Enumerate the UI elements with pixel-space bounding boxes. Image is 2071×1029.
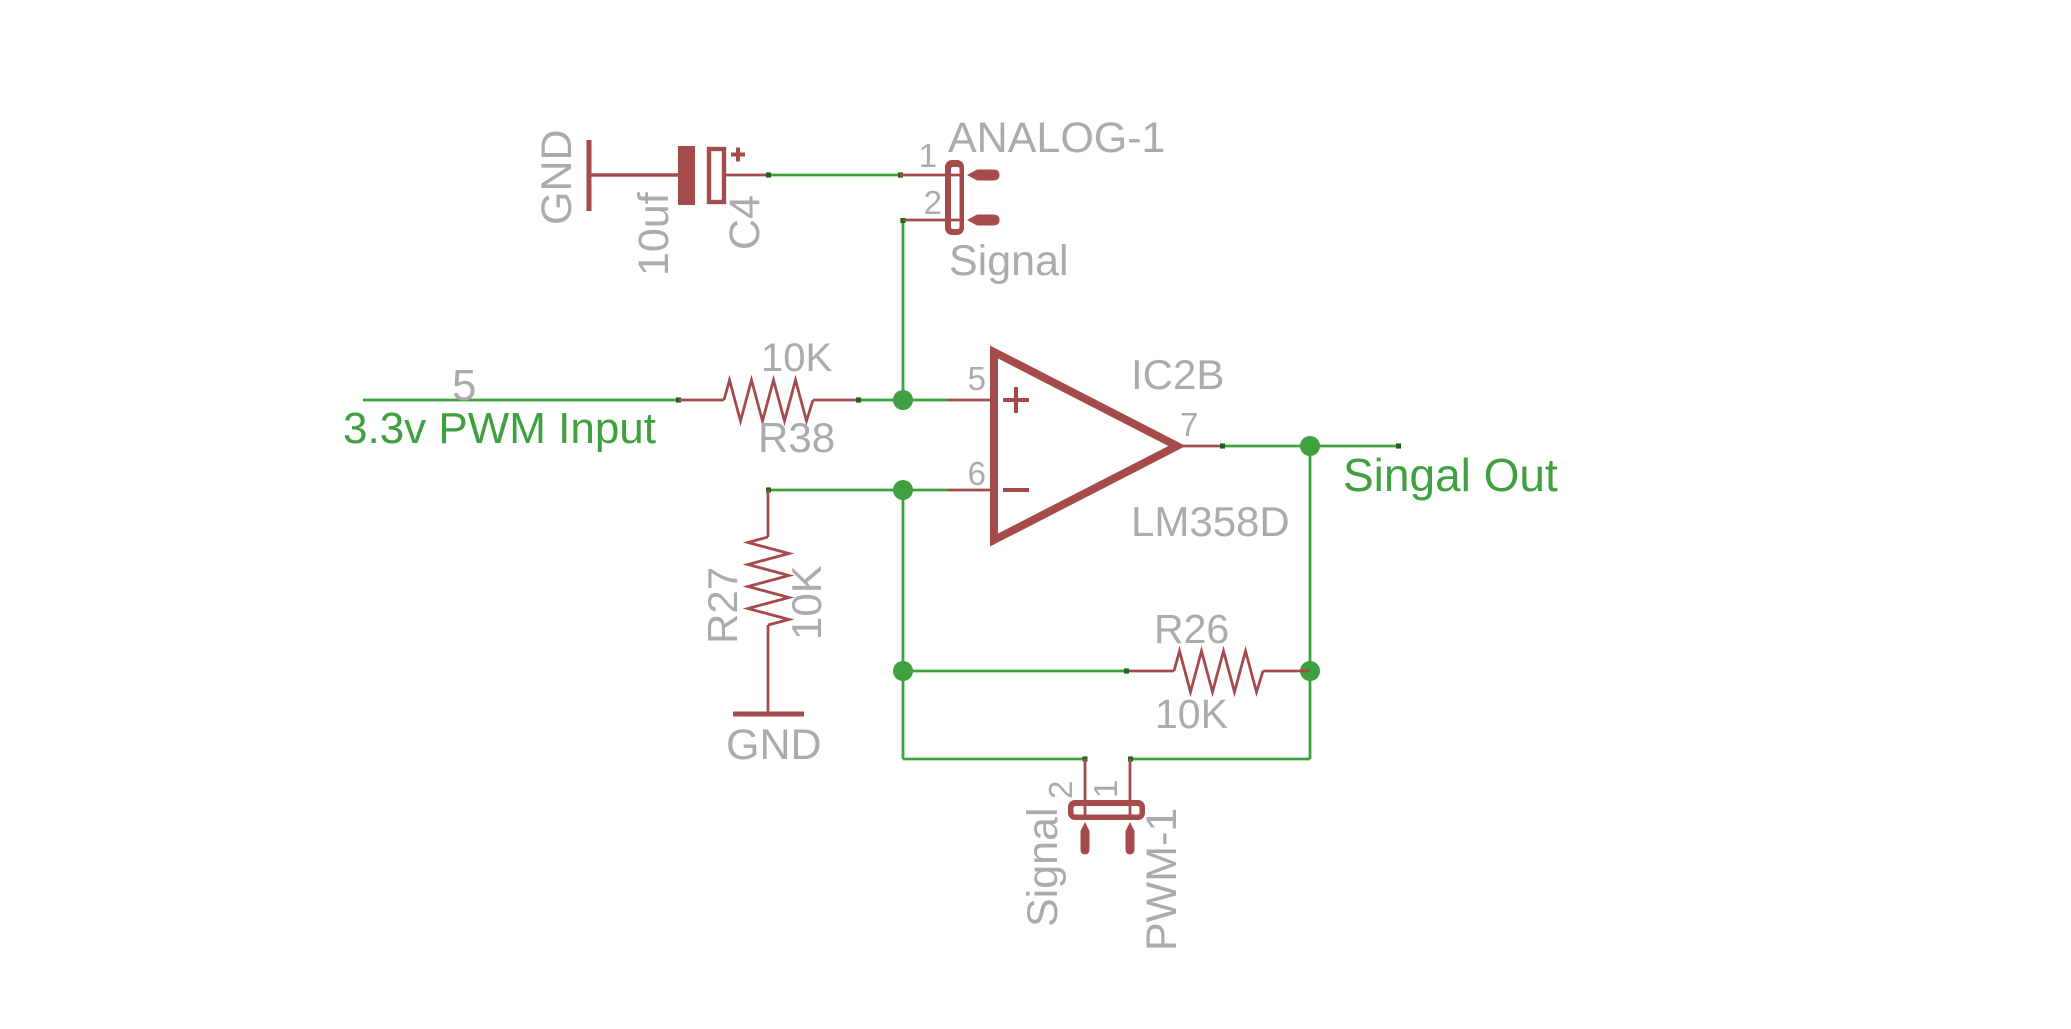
wire feedback left junction to R26 [903, 668, 1129, 673]
wire bottom rail right (PWM-1 pin 1 to output branch) [1128, 756, 1310, 761]
svg-text:LM358D: LM358D [1131, 498, 1290, 545]
svg-text:PWM-1: PWM-1 [1138, 808, 1186, 951]
svg-text:5: 5 [452, 361, 476, 410]
net 3.3v PWM Input wire [363, 397, 681, 402]
svg-text:Signal: Signal [949, 237, 1069, 285]
connector ANALOG-1 [900, 160, 1000, 235]
svg-text:10K: 10K [1155, 691, 1228, 737]
wire R38 to junction to op-amp pin 5 [856, 397, 948, 402]
op-amp IC2B [948, 352, 1222, 540]
svg-text:3.3v PWM Input: 3.3v PWM Input [343, 404, 656, 453]
ground GND bottom symbol [733, 712, 804, 717]
junction at output [1300, 436, 1320, 456]
resistor R26 [1129, 651, 1310, 692]
svg-text:1: 1 [1087, 780, 1124, 798]
svg-text:6: 6 [968, 455, 986, 492]
wire R27 top to junction to op-amp pin 6 [766, 487, 948, 492]
svg-text:IC2B: IC2B [1131, 351, 1224, 398]
resistor R38 [679, 380, 858, 421]
svg-text:10K: 10K [783, 565, 830, 640]
connector PWM-1 [1068, 759, 1145, 855]
wire junction -input down to feedback junction [902, 490, 905, 759]
wire ANALOG-1 pin 2 down to op-amp +input [900, 218, 905, 400]
wire bottom rail left (to PWM-1 pin 2) [903, 756, 1088, 761]
svg-text:1: 1 [919, 137, 937, 174]
svg-text:C4: C4 [721, 195, 769, 250]
svg-text:5: 5 [968, 360, 986, 397]
svg-text:2: 2 [1042, 781, 1079, 799]
junction at +input [893, 390, 913, 410]
svg-text:Signal: Signal [1019, 807, 1067, 927]
wire output junction down to feedback right junction [1309, 446, 1312, 759]
capacitor C4 [678, 146, 768, 205]
svg-text:2: 2 [924, 184, 942, 221]
svg-text:Singal Out: Singal Out [1343, 449, 1558, 501]
wire op-amp output to Singal Out [1220, 443, 1401, 448]
wire C4 to ANALOG-1 pin 1 [766, 172, 903, 177]
resistor R27 [748, 490, 789, 714]
svg-text:R38: R38 [758, 414, 835, 461]
junction feedback right [1300, 661, 1320, 681]
junction at -input [893, 480, 913, 500]
ground GND top-left symbol [589, 140, 679, 211]
svg-text:7: 7 [1180, 406, 1198, 443]
svg-text:R27: R27 [699, 567, 746, 644]
svg-text:ANALOG-1: ANALOG-1 [948, 114, 1165, 162]
svg-text:GND: GND [533, 129, 581, 225]
svg-text:10K: 10K [761, 336, 832, 380]
svg-text:GND: GND [726, 721, 822, 769]
junction feedback left [893, 661, 913, 681]
svg-text:R26: R26 [1154, 606, 1229, 652]
svg-text:10uf: 10uf [630, 191, 678, 276]
